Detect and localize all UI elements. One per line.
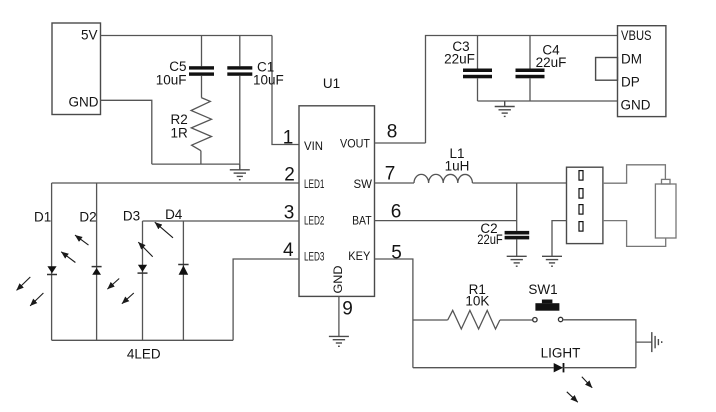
svg-text:DP: DP — [621, 75, 640, 90]
svg-text:10uF: 10uF — [156, 73, 187, 88]
ground (battery connector) — [542, 256, 562, 266]
svg-text:10K: 10K — [465, 294, 489, 309]
wire D2 vertical — [96, 183, 98, 340]
ground (left rail) — [230, 164, 250, 180]
svg-text:22uF: 22uF — [444, 52, 475, 67]
svg-text:GND: GND — [69, 95, 99, 110]
wire LIGHT led right — [564, 367, 636, 369]
svg-text:5: 5 — [391, 243, 402, 264]
svg-text:22uF: 22uF — [477, 232, 503, 247]
wire LED1 rail (pin 2 net) — [52, 182, 299, 184]
wire D4 vertical — [182, 221, 184, 340]
LED D4 — [178, 265, 188, 275]
svg-text:6: 6 — [391, 202, 402, 223]
wire U1 GND pin 9 — [338, 296, 340, 336]
wire KEY pin 5 — [375, 259, 413, 368]
wire C2 drop — [516, 183, 518, 231]
D4 arrow a — [138, 242, 152, 257]
svg-text:VIN: VIN — [304, 139, 323, 153]
wire C4 top stub — [529, 36, 531, 69]
svg-text:D4: D4 — [165, 207, 183, 222]
svg-text:D3: D3 — [123, 209, 140, 224]
D2 arrow b — [75, 235, 89, 245]
wire SW1 to gnd corner — [563, 320, 636, 368]
wire VOUT riser + VBUS rail — [426, 36, 618, 144]
wire gnd stub right — [636, 341, 652, 343]
svg-text:DM: DM — [621, 52, 642, 67]
wire C1 top stub — [239, 36, 241, 67]
wire battery connector gnd — [552, 221, 567, 257]
svg-text:KEY: KEY — [348, 249, 370, 263]
switch SW1 — [533, 300, 563, 322]
svg-text:GND: GND — [621, 97, 651, 112]
wire R1 branch — [413, 319, 448, 321]
resistor R2 — [191, 98, 211, 151]
D4 arrow b — [155, 222, 173, 238]
wire 5V rail — [101, 35, 273, 37]
LED D1 — [47, 266, 57, 274]
wire C1 bottom — [239, 76, 241, 164]
svg-text:VOUT: VOUT — [340, 137, 371, 151]
wire battery plus loop — [603, 165, 666, 183]
svg-text:10uF: 10uF — [253, 73, 284, 88]
capacitor C4 — [516, 69, 545, 79]
capacitor C5 — [189, 66, 214, 76]
D3 arrow b — [122, 293, 134, 304]
wire VIN drop to pin 1 — [272, 36, 299, 145]
5V source block — [52, 23, 101, 115]
svg-text:U1: U1 — [323, 76, 340, 91]
svg-text:22uF: 22uF — [536, 55, 567, 70]
battery connector block — [567, 167, 603, 243]
D1 arrow b — [30, 293, 43, 306]
ground (right, rotated) — [652, 332, 662, 352]
svg-text:LED2: LED2 — [304, 213, 325, 227]
wire D3 vertical — [142, 221, 144, 340]
svg-text:1uH: 1uH — [445, 159, 470, 174]
svg-text:LED3: LED3 — [304, 250, 325, 264]
svg-text:1R: 1R — [171, 126, 189, 141]
capacitor C3 — [463, 69, 492, 79]
capacitor C2 — [505, 231, 530, 240]
svg-text:LED1: LED1 — [304, 177, 325, 191]
wire D1 vertical — [51, 183, 53, 340]
svg-text:BAT: BAT — [352, 213, 372, 227]
wire R2 bottom — [200, 151, 202, 164]
svg-text:9: 9 — [342, 299, 353, 320]
battery BT1 — [655, 179, 676, 238]
wire gnd rail left — [152, 163, 240, 165]
wire cap gnd rail — [478, 100, 618, 102]
svg-text:7: 7 — [385, 164, 396, 185]
D3 arrow a — [107, 279, 119, 290]
DM/DP stub box — [596, 58, 618, 81]
LED D2 — [92, 267, 102, 275]
IC U1 — [299, 76, 375, 296]
wire C3 top stub — [477, 36, 479, 69]
wire C5 top stub — [201, 36, 203, 67]
ground (U1 pin 9) — [329, 336, 349, 346]
wire SW pin 7 to L1 — [375, 182, 415, 184]
wire BAT pin 6 — [375, 220, 517, 222]
svg-text:SW1: SW1 — [528, 282, 557, 297]
wire VOUT pin 8 — [375, 142, 426, 144]
wire R1 to SW1 — [500, 319, 533, 321]
LIGHT arrow b — [567, 392, 578, 402]
svg-text:8: 8 — [387, 122, 398, 143]
svg-text:VBUS: VBUS — [621, 28, 652, 43]
svg-text:D2: D2 — [79, 210, 96, 225]
wire C4 bottom — [529, 78, 531, 101]
wire battery minus loop — [603, 221, 666, 247]
wire C2 bottom — [516, 239, 518, 256]
wire LIGHT led left — [413, 367, 554, 369]
LED D3 — [138, 265, 148, 273]
inductor L1 — [414, 174, 472, 183]
wire L1 to battery connector — [472, 182, 566, 184]
svg-text:D1: D1 — [34, 210, 51, 225]
D1 arrow a — [17, 277, 31, 290]
ground (C2) — [507, 256, 527, 266]
LED LIGHT — [554, 363, 564, 372]
wire LED2 rail (pin 3 net) — [143, 220, 300, 222]
ground (C3/C4 rail) — [495, 101, 515, 116]
wire C5 to R2 — [201, 76, 203, 98]
wire C3 bottom — [477, 78, 479, 101]
svg-text:SW: SW — [354, 177, 373, 191]
D2 arrow a — [61, 252, 75, 263]
wire LED bottom rail — [52, 339, 234, 341]
svg-text:5V: 5V — [81, 28, 98, 43]
svg-text:1: 1 — [283, 128, 294, 149]
svg-text:4: 4 — [283, 240, 294, 261]
resistor R1 — [448, 310, 500, 329]
wire LED3 riser to pin 4 — [233, 259, 299, 340]
wire GND from 5V block — [101, 100, 152, 164]
LIGHT arrow a — [582, 377, 592, 388]
svg-text:4LED: 4LED — [127, 347, 161, 362]
USB connector block — [618, 26, 666, 117]
svg-text:LIGHT: LIGHT — [541, 346, 581, 361]
svg-text:GND: GND — [331, 265, 345, 293]
capacitor C1 — [227, 66, 252, 76]
